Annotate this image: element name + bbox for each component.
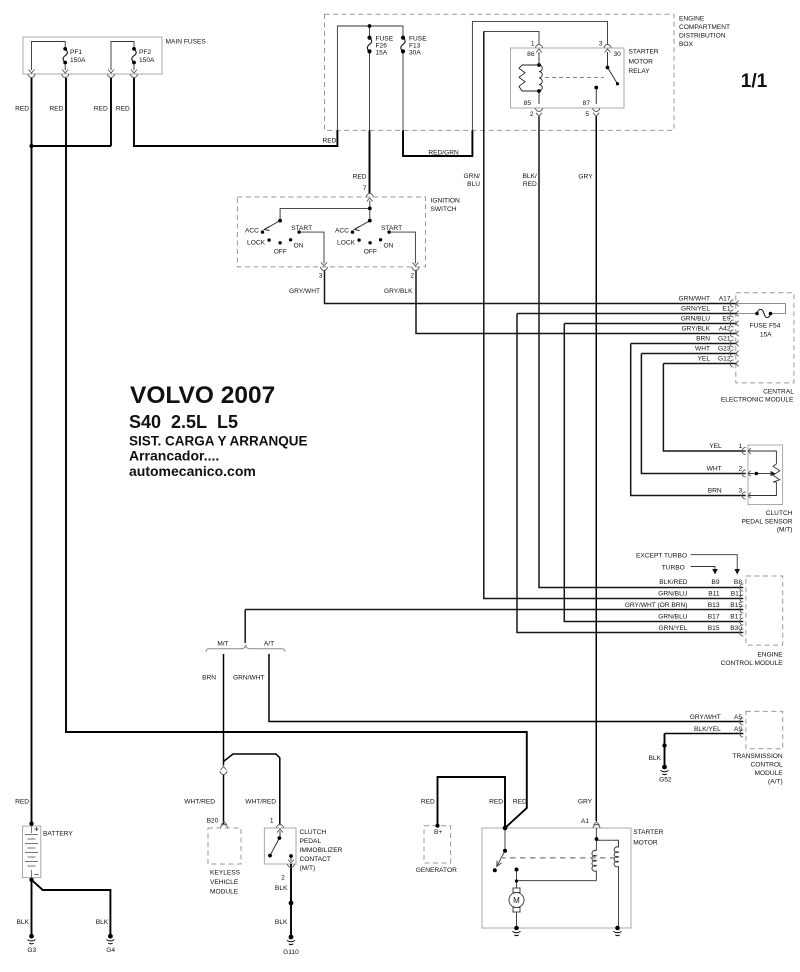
svg-text:G4: G4 <box>106 947 115 954</box>
svg-text:B17: B17 <box>708 614 720 621</box>
svg-text:3: 3 <box>739 488 743 495</box>
svg-text:MODULE: MODULE <box>754 770 783 777</box>
svg-text:RELAY: RELAY <box>629 68 651 75</box>
svg-text:86: 86 <box>527 51 535 58</box>
svg-text:5: 5 <box>585 111 589 118</box>
svg-text:CONTACT: CONTACT <box>300 856 331 863</box>
svg-text:ENGINE: ENGINE <box>757 652 783 659</box>
svg-text:B17: B17 <box>730 614 742 621</box>
svg-text:B11: B11 <box>731 591 743 598</box>
svg-text:WHT/RED: WHT/RED <box>184 798 215 805</box>
svg-text:B15: B15 <box>730 602 742 609</box>
svg-text:GRN/BLU: GRN/BLU <box>658 614 688 621</box>
svg-text:(M/T): (M/T) <box>777 526 793 533</box>
svg-text:BLK/RED: BLK/RED <box>659 579 687 586</box>
svg-text:VEHICLE: VEHICLE <box>210 879 239 886</box>
svg-text:GRY/BLK: GRY/BLK <box>384 288 413 295</box>
svg-text:FUSE: FUSE <box>409 35 427 42</box>
svg-text:B13: B13 <box>708 602 720 609</box>
svg-text:GRN/WHT: GRN/WHT <box>679 296 711 303</box>
svg-text:RED: RED <box>523 181 537 188</box>
svg-text:WHT: WHT <box>695 346 710 353</box>
svg-text:CONTROL: CONTROL <box>750 761 783 768</box>
svg-text:MOTOR: MOTOR <box>633 839 658 846</box>
svg-text:IMMOBILIZER: IMMOBILIZER <box>300 847 343 854</box>
svg-text:PEDAL SENSOR: PEDAL SENSOR <box>741 518 792 525</box>
svg-text:E1: E1 <box>722 306 730 313</box>
svg-text:F26: F26 <box>376 42 388 49</box>
svg-text:1/1: 1/1 <box>741 71 768 92</box>
svg-text:FUSE: FUSE <box>376 35 394 42</box>
svg-text:2: 2 <box>410 273 414 280</box>
svg-text:STARTER: STARTER <box>629 48 659 55</box>
svg-text:G3: G3 <box>27 947 36 954</box>
svg-text:BLK: BLK <box>17 919 30 926</box>
svg-text:RED: RED <box>116 106 130 113</box>
svg-text:TRANSMISSION: TRANSMISSION <box>732 753 782 760</box>
svg-text:S40 2.5L L5: S40 2.5L L5 <box>129 412 238 432</box>
svg-text:YEL: YEL <box>698 356 711 363</box>
svg-text:YEL: YEL <box>709 443 722 450</box>
svg-text:PF2: PF2 <box>139 49 151 56</box>
svg-text:COMPARTMENT: COMPARTMENT <box>679 24 730 31</box>
svg-text:GRN/BLU: GRN/BLU <box>681 316 711 323</box>
svg-text:VOLVO 2007: VOLVO 2007 <box>130 382 275 409</box>
svg-text:2: 2 <box>530 111 534 118</box>
svg-text:3: 3 <box>599 41 603 48</box>
svg-text:KEYLESS: KEYLESS <box>210 869 241 876</box>
svg-text:ACC: ACC <box>335 228 349 235</box>
svg-text:RED: RED <box>513 798 527 805</box>
svg-text:A9: A9 <box>734 726 742 733</box>
svg-text:3: 3 <box>319 273 323 280</box>
svg-text:BLK/: BLK/ <box>523 173 537 180</box>
svg-text:RED/GRN: RED/GRN <box>428 150 459 157</box>
svg-text:85: 85 <box>524 100 532 107</box>
svg-text:M/T: M/T <box>217 641 228 648</box>
svg-text:F13: F13 <box>409 42 421 49</box>
svg-text:150A: 150A <box>70 57 86 64</box>
svg-text:LOCK: LOCK <box>247 239 266 246</box>
svg-text:150A: 150A <box>139 57 155 64</box>
svg-text:RED: RED <box>421 798 435 805</box>
svg-text:1: 1 <box>531 41 535 48</box>
svg-text:BOX: BOX <box>679 41 694 48</box>
svg-text:2: 2 <box>281 874 285 881</box>
svg-text:ACC: ACC <box>245 228 259 235</box>
svg-text:ON: ON <box>384 243 394 250</box>
svg-text:EXCEPT TURBO: EXCEPT TURBO <box>636 553 687 560</box>
svg-text:RED: RED <box>489 798 503 805</box>
svg-text:MOTOR: MOTOR <box>629 58 654 65</box>
svg-text:BLK: BLK <box>649 755 662 762</box>
svg-text:GRN/YEL: GRN/YEL <box>659 625 688 632</box>
svg-text:RED: RED <box>49 106 63 113</box>
svg-text:GRN/BLU: GRN/BLU <box>658 591 688 598</box>
svg-text:A1: A1 <box>581 818 589 825</box>
svg-text:ENGINE: ENGINE <box>679 15 705 22</box>
svg-text:CLUTCH: CLUTCH <box>766 510 793 517</box>
svg-text:CLUTCH: CLUTCH <box>300 829 327 836</box>
svg-text:GRY/WHT: GRY/WHT <box>690 714 721 721</box>
svg-text:(M/T): (M/T) <box>300 865 316 872</box>
svg-text:B15: B15 <box>708 625 720 632</box>
svg-text:BLK: BLK <box>275 885 288 892</box>
svg-text:GRN/WHT: GRN/WHT <box>233 675 265 682</box>
svg-text:GRN/: GRN/ <box>464 173 481 180</box>
svg-text:TURBO: TURBO <box>662 565 685 572</box>
svg-text:GRY/WHT (OR BRN): GRY/WHT (OR BRN) <box>625 602 688 609</box>
svg-text:A17: A17 <box>719 296 731 303</box>
svg-text:G21: G21 <box>718 336 731 343</box>
svg-text:STARTER: STARTER <box>633 829 663 836</box>
svg-text:BLU: BLU <box>467 181 480 188</box>
svg-text:2: 2 <box>739 466 743 473</box>
svg-text:B11: B11 <box>708 591 720 598</box>
svg-text:OFF: OFF <box>274 248 287 255</box>
svg-text:START: START <box>291 225 312 232</box>
svg-text:A/T: A/T <box>264 641 274 648</box>
svg-text:OFF: OFF <box>364 248 377 255</box>
svg-text:ELECTRONIC MODULE: ELECTRONIC MODULE <box>721 396 794 403</box>
svg-text:GRY/WHT: GRY/WHT <box>289 288 320 295</box>
svg-text:(A/T): (A/T) <box>768 779 783 786</box>
svg-text:MAIN FUSES: MAIN FUSES <box>166 39 207 46</box>
svg-text:BLK: BLK <box>96 919 109 926</box>
svg-text:30A: 30A <box>409 50 421 57</box>
svg-text:1: 1 <box>739 443 743 450</box>
svg-text:1: 1 <box>270 817 274 824</box>
svg-text:RED: RED <box>353 174 367 181</box>
svg-text:PEDAL: PEDAL <box>300 838 322 845</box>
svg-text:15A: 15A <box>376 50 388 57</box>
svg-text:MODULE: MODULE <box>210 888 239 895</box>
svg-text:BRN: BRN <box>696 336 710 343</box>
svg-text:7: 7 <box>363 185 367 192</box>
svg-text:CONTROL MODULE: CONTROL MODULE <box>721 660 784 667</box>
svg-text:SIST. CARGA Y ARRANQUE: SIST. CARGA Y ARRANQUE <box>129 433 308 448</box>
svg-text:GRY/BLK: GRY/BLK <box>682 326 711 333</box>
svg-text:CENTRAL: CENTRAL <box>763 388 794 395</box>
svg-text:A5: A5 <box>734 714 742 721</box>
svg-text:LOCK: LOCK <box>337 239 356 246</box>
svg-text:G12: G12 <box>718 356 731 363</box>
svg-text:BRN: BRN <box>708 488 722 495</box>
svg-text:B30: B30 <box>730 625 742 632</box>
svg-text:30: 30 <box>614 51 622 58</box>
svg-text:GRY: GRY <box>578 798 593 805</box>
svg-text:GRY: GRY <box>578 174 593 181</box>
svg-text:G110: G110 <box>283 949 299 956</box>
svg-text:IGNITION: IGNITION <box>431 197 461 204</box>
svg-text:BRN: BRN <box>202 675 216 682</box>
svg-text:RED: RED <box>15 106 29 113</box>
svg-text:GENERATOR: GENERATOR <box>416 867 457 874</box>
svg-text:WHT: WHT <box>707 466 722 473</box>
svg-text:FUSE F54: FUSE F54 <box>750 323 781 330</box>
svg-text:E9: E9 <box>722 316 730 323</box>
svg-text:SWITCH: SWITCH <box>431 206 457 213</box>
svg-text:automecanico.com: automecanico.com <box>129 463 256 479</box>
svg-text:RED: RED <box>94 106 108 113</box>
svg-text:Arrancador....: Arrancador.... <box>129 447 219 463</box>
svg-text:WHT/RED: WHT/RED <box>245 798 276 805</box>
svg-text:M: M <box>513 896 520 905</box>
svg-text:BLK: BLK <box>275 919 288 926</box>
svg-text:B+: B+ <box>434 829 442 836</box>
svg-text:15A: 15A <box>760 332 772 339</box>
svg-text:RED: RED <box>15 798 29 805</box>
svg-text:RED: RED <box>322 137 336 144</box>
svg-text:B9: B9 <box>711 579 719 586</box>
svg-text:BLK/YEL: BLK/YEL <box>694 726 721 733</box>
svg-text:G23: G23 <box>718 346 731 353</box>
svg-text:PF1: PF1 <box>70 49 82 56</box>
svg-text:87: 87 <box>583 100 591 107</box>
svg-text:B8: B8 <box>734 579 742 586</box>
svg-text:GRN/YEL: GRN/YEL <box>681 306 710 313</box>
svg-text:A42: A42 <box>719 326 731 333</box>
svg-text:ON: ON <box>294 243 304 250</box>
svg-text:G52: G52 <box>659 777 672 784</box>
svg-text:START: START <box>381 225 402 232</box>
svg-text:B20: B20 <box>207 817 219 824</box>
svg-text:BATTERY: BATTERY <box>43 831 73 838</box>
svg-text:DISTRIBUTION: DISTRIBUTION <box>679 32 726 39</box>
